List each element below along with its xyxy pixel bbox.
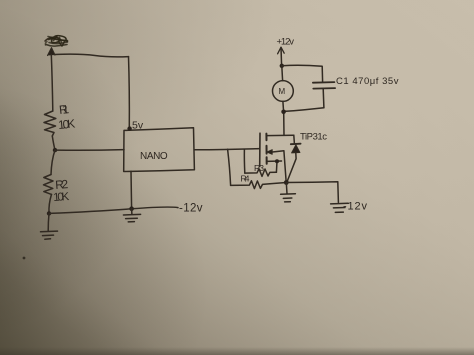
wire to capacitor top <box>282 65 323 82</box>
transistor Q1 body arrow <box>267 150 272 155</box>
wire motor top <box>281 66 284 81</box>
svg-text:R4: R4 <box>241 174 250 184</box>
resistor R1 <box>44 111 56 136</box>
svg-text:TiP31c: TiP31c <box>300 132 327 143</box>
ground (-12v right) <box>331 203 349 212</box>
resistor R2 <box>44 175 54 195</box>
resistor R3 <box>245 169 277 177</box>
wire tee down to R4 <box>228 149 231 185</box>
wire body to source drop <box>272 151 286 183</box>
wire node B down <box>47 213 50 230</box>
node motor top <box>280 64 284 68</box>
svg-text:NANO: NANO <box>140 151 168 162</box>
diode D1 flyback <box>293 135 296 143</box>
wire drain up to motor <box>283 112 285 135</box>
ground (left) <box>41 231 58 239</box>
svg-text:M: M <box>278 87 285 96</box>
node 5v pin <box>127 126 131 130</box>
wire NANO output to gate <box>194 149 259 150</box>
wire rail to right ground <box>286 182 338 203</box>
node D (source/rail junction) <box>284 180 289 185</box>
wire R3 riser to source node <box>275 161 278 172</box>
svg-text:+12v: +12v <box>277 37 295 48</box>
wire node A to R2 <box>51 150 55 174</box>
node C (NANO gnd on rail) <box>129 206 134 211</box>
svg-text:R2: R2 <box>55 177 69 192</box>
wire R2 to ground node <box>49 194 52 213</box>
wire motor bottom <box>282 101 285 111</box>
arrow +12v supply <box>278 47 285 54</box>
wire R1 to node A <box>52 136 55 150</box>
node source/R3 <box>275 159 279 163</box>
wire node A to NANO input <box>55 149 124 152</box>
svg-text:R3: R3 <box>254 163 264 173</box>
resistor R4 <box>231 181 270 189</box>
wire drop to 5v pin <box>128 57 131 128</box>
svg-text:10K: 10K <box>53 191 70 204</box>
wire capacitor bottom <box>322 89 325 108</box>
transistor Q1 TIP31C gate bar <box>259 133 261 166</box>
wire bottom rail to -12v label <box>49 207 178 213</box>
ground (source) <box>281 183 296 202</box>
motor M circle <box>273 81 294 102</box>
transistor Q1 channel segments <box>265 134 267 164</box>
wire top rail to NANO <box>54 54 129 57</box>
node A (R1/R2 divider) <box>53 148 57 152</box>
svg-text:5v: 5v <box>132 120 144 132</box>
svg-text:R1: R1 <box>58 102 70 117</box>
svg-text:-12v: -12v <box>343 201 368 213</box>
wire R4 to node D <box>270 183 286 184</box>
wire drain <box>267 134 294 136</box>
wire tee down to R3 <box>243 149 245 173</box>
arrow head (+5v supply) <box>48 48 56 56</box>
ground (NANO) <box>123 209 140 222</box>
svg-text:10K: 10K <box>58 117 76 132</box>
wire supply down to R1 <box>51 55 53 112</box>
svg-text:-12v: -12v <box>179 203 203 215</box>
capacitor C1 plates <box>313 81 335 84</box>
mcu U1 NANO box <box>124 128 195 172</box>
wire NANO ground down <box>130 171 133 208</box>
node B (bottom rail junction) <box>47 211 51 215</box>
wire source <box>267 160 282 162</box>
svg-text:C1 470μf 35v: C1 470μf 35v <box>336 76 399 87</box>
scribbled +5v label <box>45 36 68 46</box>
node motor bottom <box>281 110 286 115</box>
